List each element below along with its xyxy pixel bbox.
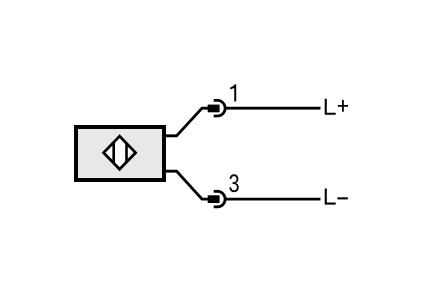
pin number 3 [229,174,238,192]
pin number 1 [230,84,236,101]
sensor symbol diamond [104,136,136,169]
wire L- [225,198,321,201]
wire pin3 [164,171,209,199]
sensor body K1 [76,127,164,180]
connector pin 3 [208,195,220,203]
net label L+ [325,99,348,115]
connector socket 3 [214,191,225,207]
wire L+ [225,107,321,110]
net label L- [325,189,348,205]
connector pin 1 [208,105,220,113]
connector socket 1 [214,100,225,116]
wire pin1 [164,108,209,136]
